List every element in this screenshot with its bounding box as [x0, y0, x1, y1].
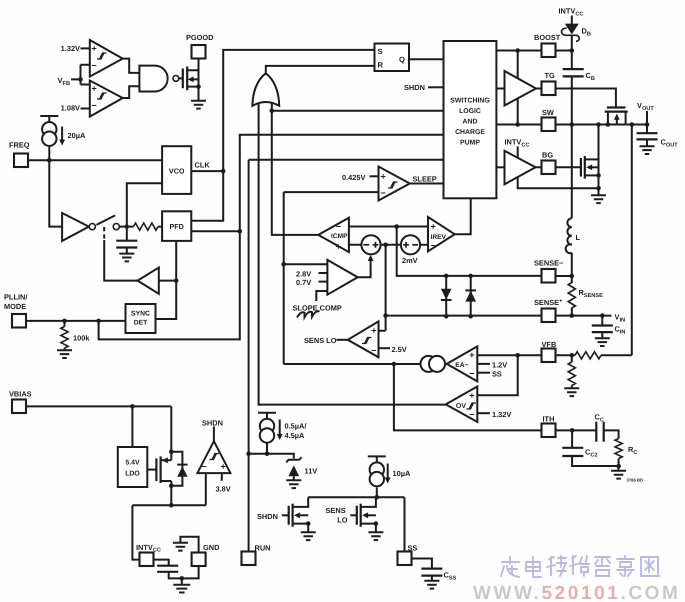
wire EA/OV plus tie: [477, 355, 517, 395]
wire INTVCC rail: [132, 504, 205, 506]
svg-text:2mV: 2mV: [402, 256, 418, 265]
node ICMP minus branch: [383, 243, 388, 248]
wire slope comp 0.7V stub: [319, 281, 328, 283]
wire EA output branch to ITH pin: [394, 364, 542, 430]
wire 0.425V ref stub: [370, 175, 379, 177]
wire EA plus / VFB line: [477, 354, 541, 356]
svg-text:DB: DB: [582, 27, 591, 38]
glyph OV hysteresis: [467, 403, 477, 409]
svg-text:LO: LO: [337, 516, 348, 525]
wire SENSE+ line: [379, 245, 612, 331]
svg-text:−: −: [92, 101, 97, 111]
ground Q1 source: [191, 101, 206, 109]
wire SHDN input stub: [428, 86, 444, 88]
wire CIN stub: [601, 316, 603, 339]
wire switch to buffer A2 output: [104, 240, 137, 281]
wire EA minus 1.2V stub: [477, 363, 490, 365]
wire IREV output to logic block: [455, 198, 471, 234]
label S2 plus: [403, 242, 409, 248]
wire M5 drain stub: [361, 497, 376, 507]
bubble A1: [89, 224, 95, 230]
resistor divider upper: [575, 352, 601, 359]
wire shutdown rail: [308, 496, 404, 498]
node sync feedback: [174, 278, 179, 283]
wire latch Q output to logic block: [409, 58, 444, 60]
wire VOUT stub: [646, 111, 648, 125]
wire M2 channel bar: [584, 156, 586, 179]
resistor RSENSE: [568, 283, 575, 309]
wire OR gate output to R input: [266, 66, 375, 74]
svg-text:CIN: CIN: [615, 325, 626, 336]
wire PLLIN to mode-select bus: [99, 135, 444, 340]
block PFD: [162, 211, 191, 241]
wire INTVCC rail to pin: [132, 505, 139, 559]
svg-text:2.5V: 2.5V: [392, 345, 407, 354]
svg-text:ICMP: ICMP: [331, 233, 348, 240]
svg-text:BG: BG: [542, 151, 553, 160]
ground CSS: [424, 581, 439, 589]
svg-text:0.5µA/: 0.5µA/: [285, 422, 307, 431]
svg-text:LOGIC: LOGIC: [459, 108, 481, 115]
svg-text:3.8V: 3.8V: [216, 485, 231, 494]
wire SW rail: [496, 124, 647, 126]
wire M5 channel bar: [360, 504, 362, 527]
arrow I1 20uA head: [59, 140, 65, 146]
watermark chinese text: [501, 556, 659, 577]
amp A6 slope comp: [327, 260, 357, 295]
pin SENSE+: [542, 309, 556, 323]
inductor L coil: [566, 218, 572, 253]
comparator A7 sens lo: [348, 321, 379, 357]
pin TG: [542, 82, 556, 96]
wire COUT to ground: [646, 125, 648, 146]
ground GND pin chassis: [173, 543, 188, 551]
wire 20uA source to FREQ node: [48, 146, 50, 160]
svg-text:CSS: CSS: [444, 571, 457, 582]
svg-text:SHDN: SHDN: [404, 83, 425, 92]
wire slope comp top input: [284, 263, 328, 265]
wire ICMP output to OR gate: [272, 103, 319, 235]
node I2 output: [265, 451, 270, 456]
svg-text:3786 BD: 3786 BD: [627, 478, 644, 483]
wire loop filter node to VCO input: [127, 183, 162, 226]
wire INTVCC to DB stub: [571, 16, 573, 28]
ground 100k: [57, 350, 72, 358]
diode DB triangle: [565, 24, 579, 35]
gm output circle right: [429, 356, 445, 372]
block 5.4V LDO: [118, 447, 148, 487]
wire SLEEP output to logic block: [410, 183, 444, 185]
ground M4 source: [301, 532, 316, 540]
svg-text:1.32V: 1.32V: [61, 44, 80, 53]
wire 10uA source to rail: [376, 487, 378, 497]
svg-text:SENS LO: SENS LO: [304, 336, 337, 345]
node BG return: [596, 186, 601, 191]
ground loop filter: [119, 254, 134, 262]
svg-text:VIN: VIN: [615, 313, 626, 324]
wire VFB input to comparators: [71, 65, 90, 85]
svg-text:EA−: EA−: [455, 362, 468, 369]
wire M3 body diode branch: [171, 452, 182, 486]
svg-text:SLEEP: SLEEP: [413, 175, 437, 184]
svg-text:SWITCHING: SWITCHING: [450, 97, 489, 104]
resistor divider lower: [568, 362, 575, 386]
summer S2 2mV: [401, 235, 420, 254]
wire SENSE- pin to inductor node: [556, 275, 572, 277]
node comp ground: [616, 464, 621, 469]
svg-text:AND: AND: [463, 119, 478, 126]
current source I1 20uA circle 1: [42, 122, 56, 136]
resistor 100k: [61, 327, 68, 349]
wire FREQ pin to VCO: [28, 159, 162, 161]
node Q1 source: [196, 84, 201, 89]
node CLK: [221, 169, 226, 174]
svg-text:SENS: SENS: [326, 506, 346, 515]
wire M3 drain stub: [161, 459, 172, 461]
node VBIAS LDO: [130, 404, 135, 409]
svg-text:LDO: LDO: [125, 471, 140, 478]
node M3 drain diode: [169, 450, 174, 455]
ground compensation: [611, 471, 626, 479]
wire BG output to M2 gate: [536, 166, 581, 168]
wire M4 body arrow stub: [300, 514, 308, 516]
svg-text:CHARGE: CHARGE: [455, 129, 485, 136]
comparator A5 sleep: [379, 167, 410, 201]
wire M1 source stub: [607, 112, 609, 125]
diode D3 cathode bar: [441, 299, 452, 301]
arrow Q1 body: [188, 77, 194, 83]
node D4 top: [468, 274, 473, 279]
node INTVCC gnd: [180, 576, 185, 581]
transistor Q1 gate bar: [182, 69, 184, 89]
wire M2 drain stub: [585, 158, 599, 160]
comparator A3 ov: [90, 40, 123, 77]
wire M4 channel bar: [292, 504, 294, 527]
label S2 minus: [412, 244, 418, 246]
wire OR gate left input from OV: [259, 103, 446, 405]
svg-text:BOOST: BOOST: [534, 33, 561, 42]
capacitor INTVCC bypass: [157, 566, 178, 572]
wire VOUT sense line down: [601, 125, 632, 356]
wire diode D3 column: [445, 276, 447, 316]
svg-text:RSENSE: RSENSE: [579, 288, 604, 299]
node VIN CIN: [600, 313, 605, 318]
wire M2 body arrow stub: [592, 166, 599, 168]
wire VFB pin to divider: [556, 354, 576, 356]
pin RUN: [242, 552, 256, 566]
svg-text:SLOPE COMP: SLOPE COMP: [293, 304, 342, 313]
svg-text:1.2V: 1.2V: [492, 361, 507, 370]
svg-text:Q: Q: [399, 55, 405, 64]
wire M4 drain stub: [293, 497, 309, 507]
wire ICMP node to logic block: [272, 110, 444, 112]
svg-text:+: +: [431, 222, 436, 232]
pin VFB: [542, 349, 556, 363]
nand-gate G1 bubble: [173, 76, 179, 82]
wire ICMP plus input line: [349, 226, 428, 228]
svg-text:PFD: PFD: [170, 222, 184, 231]
arrow I1 20uA: [61, 127, 63, 142]
svg-text:FREQ: FREQ: [9, 141, 30, 150]
wire NAND output to Q1 gate: [179, 77, 183, 79]
node 10uA rail: [375, 495, 380, 500]
wire RUN net to logic block: [249, 159, 444, 161]
svg-text:−: −: [202, 462, 207, 472]
svg-text:−: −: [371, 346, 376, 356]
pin INTVCC: [140, 553, 154, 567]
wire switch dashed segment: [103, 227, 105, 240]
svg-text:L: L: [576, 233, 581, 242]
block switching logic and charge pump: [444, 41, 497, 198]
svg-text:TG: TG: [545, 71, 556, 80]
node D4 bottom: [468, 314, 473, 319]
node CB SW: [570, 122, 575, 127]
comparator A8 shdn: [197, 441, 230, 473]
wire M2 drain-source column: [598, 125, 600, 196]
node M3 source diode: [169, 484, 174, 489]
node 100k: [62, 319, 67, 324]
node EA plus tie: [515, 353, 520, 358]
node SENSE+ branch: [383, 313, 388, 318]
driver BG: [505, 151, 536, 185]
wire SENSE- branch to ICMP: [397, 227, 542, 276]
wire PFD ref input from CLK: [191, 171, 223, 221]
wire Q1 body arrow stub: [193, 78, 198, 80]
svg-text:+: +: [336, 242, 341, 252]
wire slope comp bottom stub: [316, 291, 327, 301]
ground COUT: [640, 146, 655, 154]
svg-text:CB: CB: [586, 71, 595, 82]
svg-text:+: +: [381, 172, 386, 182]
wire M3 channel bar: [160, 456, 162, 483]
node SENSE- inductor: [570, 274, 575, 279]
svg-text:SENSE−: SENSE−: [534, 259, 564, 268]
svg-text:SENSE+: SENSE+: [534, 298, 563, 307]
current source I3 10uA circle 2: [370, 472, 384, 486]
glyph A8 hysteresis: [210, 454, 220, 460]
wire ITH / EA output line: [284, 363, 447, 365]
svg-text:S: S: [378, 47, 383, 56]
svg-text:−: −: [469, 410, 474, 420]
node D3 top: [444, 274, 449, 279]
svg-text:SS: SS: [492, 370, 502, 379]
node OR input / ICMP: [270, 108, 275, 113]
svg-text:0.7V: 0.7V: [296, 278, 311, 287]
node VOUT sense: [630, 122, 635, 127]
block SR latch: [375, 44, 410, 72]
wire zener to ground: [293, 476, 295, 480]
svg-text:4.5µA: 4.5µA: [285, 431, 306, 440]
pin SENSE-: [542, 269, 556, 283]
glyph A4 hysteresis: [97, 93, 107, 99]
pin SW: [542, 118, 556, 132]
wire comparator A output to NAND: [123, 59, 140, 73]
wire M4 gate bar: [288, 506, 290, 525]
node RSENSE SENSE+: [570, 313, 575, 318]
svg-text:OV: OV: [456, 403, 466, 410]
comparator ICMP: [318, 218, 349, 252]
node BOOST driver: [515, 48, 520, 53]
wire M3 source stub: [161, 480, 172, 482]
capacitor CC2: [562, 448, 583, 456]
current source I3 10uA top bar: [368, 456, 386, 462]
wire LDO output to M3 gate: [147, 469, 156, 471]
svg-text:CLK: CLK: [195, 161, 211, 170]
comparator IREV: [428, 217, 455, 251]
wire PFD output 2: [191, 230, 240, 232]
wire M1 drain stub: [625, 112, 627, 125]
svg-text:ITH: ITH: [543, 415, 555, 424]
node loop filter: [125, 224, 130, 229]
wire VBIAS to LDO: [131, 406, 133, 447]
node M5 source: [374, 521, 379, 526]
driver TG: [505, 71, 537, 106]
ground VFB divider: [564, 388, 579, 396]
wire CC2 branch: [572, 430, 619, 466]
svg-text:CC: CC: [595, 413, 604, 424]
pin FREQ: [14, 154, 28, 168]
label S1 minus: [363, 244, 369, 246]
svg-text:+: +: [92, 84, 97, 94]
svg-text:+: +: [469, 350, 474, 360]
wire DB to CB to SW: [571, 35, 573, 125]
svg-text:11V: 11V: [305, 467, 318, 476]
node driver SW: [515, 122, 520, 127]
wire RSENSE column: [571, 276, 573, 316]
svg-text:PUMP: PUMP: [460, 140, 480, 147]
wire VCO CLK output: [191, 170, 223, 172]
wire rail to SS pin: [404, 497, 406, 551]
current source I1 20uA circle 2: [42, 132, 56, 146]
buffer A2: [138, 268, 159, 294]
svg-text:−: −: [431, 241, 436, 251]
pin SS: [398, 552, 412, 566]
node FREQ: [47, 158, 52, 163]
svg-text:CC2: CC2: [585, 448, 598, 459]
current source I1 20uA top bar: [40, 116, 58, 122]
resistor RC: [615, 439, 622, 459]
svg-text:20µA: 20µA: [68, 131, 86, 140]
pin BOOST: [542, 44, 556, 58]
svg-text:1.32V: 1.32V: [492, 410, 511, 419]
arrow M4 body: [294, 512, 300, 518]
error amp EA: [447, 346, 478, 381]
wire slope comp 2.8V stub: [319, 272, 328, 274]
node VOUT: [645, 122, 650, 127]
glyph A5 hysteresis: [388, 182, 398, 188]
svg-text:VOUT: VOUT: [637, 101, 654, 112]
wire diode D4 column: [470, 276, 472, 316]
svg-text:PGOOD: PGOOD: [186, 33, 214, 42]
block SYNC DET: [126, 304, 156, 333]
node VFB comparators: [78, 77, 83, 82]
diode DB curved cathode: [562, 28, 580, 41]
svg-text:R: R: [378, 61, 384, 70]
wire 1.08V ref stub: [81, 108, 90, 110]
wire M3 drain column: [170, 406, 172, 460]
wire filter node to resistor: [120, 226, 162, 228]
svg-text:COUT: COUT: [661, 138, 679, 149]
wire PLLIN/MODE line: [26, 320, 126, 322]
svg-text:+: +: [221, 462, 226, 472]
wire SHDN comp output stub: [213, 427, 215, 442]
diode D4 cathode bar: [465, 289, 476, 291]
current source I2 0.5uA/4.5uA top bar: [258, 413, 276, 419]
svg-text:VCO: VCO: [169, 166, 185, 175]
pin VBIAS: [12, 400, 26, 414]
wire Q1 drain to PGOOD pin: [187, 59, 198, 71]
wire M5 source stub: [361, 524, 376, 533]
glyph A3 hysteresis: [97, 53, 107, 59]
node PLLIN branch: [96, 319, 101, 324]
wire M5 body arrow stub: [368, 514, 376, 516]
svg-text:RC: RC: [628, 445, 637, 456]
svg-text:2.8V: 2.8V: [296, 269, 311, 278]
wire ICMP minus input line: [349, 244, 428, 246]
arrow M3 body: [162, 457, 168, 463]
svg-text:−: −: [336, 222, 341, 232]
wire PFD feedback input: [175, 241, 177, 281]
arrowhead slope comp injection: [368, 255, 374, 261]
wire INTVCC pin to bypass cap: [154, 560, 199, 579]
svg-text:SHDN: SHDN: [202, 419, 223, 428]
wire RUN to zener node: [249, 453, 267, 455]
svg-text:SYNC: SYNC: [131, 310, 150, 317]
resistor loop filter: [134, 223, 159, 230]
node ITH comp: [570, 428, 575, 433]
wire BOOST line from logic block: [496, 50, 571, 52]
wire M3 source column: [170, 481, 172, 505]
svg-text:−: −: [92, 61, 97, 71]
arrow I2 head: [277, 434, 283, 440]
wire SHDN comp input from rail: [205, 473, 207, 505]
wire 0.5uA source to node: [266, 443, 268, 454]
diode M3 body triangle: [177, 466, 187, 477]
node INTVCC rail: [169, 503, 174, 508]
svg-text:+: +: [92, 44, 97, 54]
arrow M5 body: [362, 512, 368, 518]
ground M2 source: [591, 195, 606, 203]
wire 1.32V ref stub: [81, 47, 90, 49]
ground INTVCC node: [173, 585, 190, 593]
wire BG driver return rail: [518, 176, 599, 188]
wire SENS LO minus 2.5V stub: [379, 347, 391, 349]
svg-text:MODE: MODE: [4, 302, 26, 311]
svg-text:WWW.520101.COM: WWW.520101.COM: [473, 583, 680, 602]
node SENSE- branch: [394, 224, 399, 229]
buffer A1: [62, 213, 89, 241]
wire BG driver input: [496, 166, 505, 168]
wire SENS LO gate stub: [350, 514, 357, 516]
ground zener: [286, 480, 301, 488]
wire M2 gate bar: [580, 158, 582, 177]
svg-text:GND: GND: [203, 543, 220, 552]
svg-text:−: −: [381, 188, 386, 198]
wire TG output to M1 gate: [536, 89, 616, 108]
svg-text:0.425V: 0.425V: [342, 173, 365, 182]
node M4 source: [306, 521, 311, 526]
wire inductor net SW to SENSE-: [571, 125, 573, 277]
node BOOST diode: [570, 48, 575, 53]
svg-text:VFB: VFB: [58, 76, 70, 87]
current source I2 0.5uA/4.5uA circle 2: [260, 428, 274, 442]
label S1 plus: [373, 242, 379, 248]
wire ITH pin to compensation: [556, 430, 619, 438]
wire node to zener: [267, 454, 294, 459]
wire switch arm: [96, 215, 115, 225]
node slope comp input: [281, 262, 286, 267]
svg-text:100k: 100k: [73, 334, 90, 343]
